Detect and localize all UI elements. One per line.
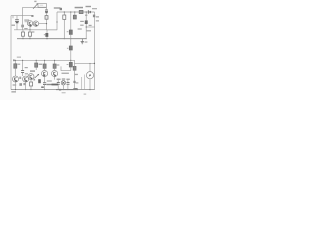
- wire bottom supply rail: [14, 59, 75, 61]
- meter M1 tick: [89, 74, 91, 76]
- capacitor C7 bottom lead: [57, 84, 59, 89]
- lamp LP1 cross: [62, 81, 65, 84]
- wire stub left of meter 2: [84, 75, 86, 90]
- battery B1 long plate: [87, 10, 89, 14]
- label above long text: [47, 80, 52, 81]
- transistor T3 internals: [14, 77, 16, 81]
- node dot x70 rail: [70, 11, 71, 12]
- wire C4 to right rail: [86, 26, 94, 28]
- diode D1 body: [73, 15, 76, 19]
- label right of battery: [85, 15, 87, 16]
- resistor R3 lead: [29, 30, 31, 32]
- node dot meter drop: [89, 63, 90, 64]
- transistor T6 emitter blob: [43, 75, 45, 77]
- node dot R11: [36, 60, 37, 61]
- capacitor C5 top lead: [22, 60, 24, 70]
- wire left vertical rail: [10, 16, 12, 90]
- label between T3 T4: [19, 77, 21, 79]
- wire top-right rail: [57, 11, 95, 13]
- node dot mid rail at R3: [29, 38, 30, 39]
- wire R11 down: [35, 67, 37, 70]
- capacitor C5 plates: [21, 71, 24, 73]
- dark blob on 0V rail at R14: [73, 88, 77, 90]
- label C1 second line: [25, 21, 28, 22]
- potentiometer R1 arrowhead: [36, 3, 38, 5]
- resistor R12 box: [43, 64, 46, 68]
- wire bottom 0V rail: [11, 89, 95, 91]
- node dot T1 emitter on rail: [29, 29, 30, 30]
- wire meter drop: [89, 63, 91, 71]
- node dot R12: [44, 60, 45, 61]
- label T1 base tick: [31, 15, 33, 17]
- capacitor C1 bottom lead: [22, 27, 24, 30]
- label long bottom text right: [52, 84, 59, 86]
- wire emitter feedback: [61, 66, 71, 70]
- resistor R14 body: [73, 66, 76, 70]
- resistor R9 lead: [14, 60, 16, 64]
- resistor R8 tick: [67, 64, 69, 66]
- node dot x70 bottom rail: [70, 60, 71, 61]
- label S1 dark part: [60, 8, 62, 10]
- capacitor C6 polarity: [41, 86, 44, 88]
- potentiometer R1 value mark: [40, 5, 44, 6]
- transistor T5 internals: [30, 75, 32, 79]
- capacitor C6 plates: [43, 83, 46, 85]
- label under rail right: [84, 94, 87, 95]
- wire meter to 0V: [89, 79, 91, 90]
- capacitor C1 top lead: [22, 16, 24, 25]
- resistor R5 lead top: [63, 12, 65, 15]
- label battery: [75, 7, 83, 9]
- transistor T3 emitter blob: [15, 80, 17, 82]
- node blob on 0V rail: [59, 89, 61, 91]
- transistor T4 circle: [23, 76, 29, 82]
- capacitor C3 body: [45, 33, 48, 37]
- microphone MIC1 element plates: [15, 20, 19, 22]
- wire mic top lead: [11, 15, 32, 17]
- arrow into T6: [35, 74, 39, 78]
- wire x70 bottom: [70, 67, 72, 71]
- battery B1 short plate: [89, 11, 91, 13]
- label above ground rail right: [78, 28, 82, 29]
- transistor T1 circle: [27, 21, 32, 26]
- mic body left stub: [12, 16, 14, 19]
- capacitor C3 polarity tick: [44, 34, 45, 36]
- label long bottom text left: [46, 84, 51, 85]
- node dot R9: [15, 60, 16, 61]
- transistor T1 emitter blob: [30, 25, 32, 27]
- label MIC text: [12, 25, 15, 26]
- resistor R11 box: [35, 63, 38, 67]
- label above C7 row: [57, 79, 61, 80]
- capacitor C3 top lead: [46, 30, 48, 33]
- label near right rail: [89, 25, 92, 26]
- wire T7 down: [54, 77, 56, 80]
- label R9: [17, 64, 20, 65]
- label T5: [30, 70, 35, 71]
- label right of rail lower: [96, 20, 99, 21]
- transistor T5 circle: [28, 74, 34, 80]
- wire collector node vertical: [46, 19, 48, 30]
- label above T4: [25, 73, 28, 74]
- node dot T2 collector: [46, 23, 47, 24]
- transistor T7 circle: [52, 70, 58, 76]
- resistor R6 box: [69, 30, 72, 34]
- meter M1 circle: [86, 72, 93, 79]
- transistor T1 internals: [29, 22, 31, 25]
- arrowhead T6: [37, 74, 39, 76]
- label under 0V rail mid: [62, 92, 66, 93]
- transistor T2 emitter blob: [36, 25, 38, 26]
- transistor T5 emitter blob: [31, 78, 33, 80]
- lamp LP1 circle: [61, 81, 65, 85]
- resistor R2 box: [22, 32, 25, 36]
- node dot R5: [64, 11, 65, 12]
- meter M1 hub: [89, 74, 91, 76]
- transistor T2 circle: [33, 21, 38, 26]
- node dot mid rail at R2: [22, 38, 23, 39]
- capacitor C2 series top: [46, 8, 48, 10]
- transistor T2 internals: [35, 22, 37, 25]
- node dot meter feed at right rail: [94, 63, 95, 64]
- capacitor C4 top lead: [85, 12, 87, 20]
- node dot C5: [22, 60, 23, 61]
- capacitor C1 plates: [21, 25, 24, 27]
- label plus terminal on right rail: [93, 15, 95, 18]
- node dot D1: [74, 11, 75, 12]
- wire R14 to 0V: [74, 63, 76, 66]
- node dot R10 0V: [30, 89, 31, 90]
- potentiometer R1 box: [38, 4, 47, 8]
- resistor R4 box: [45, 16, 48, 20]
- capacitor C2 plates: [45, 10, 48, 12]
- wire R14 lower: [74, 70, 76, 89]
- capacitor C8 plates: [67, 82, 70, 84]
- resistor R3 box: [29, 32, 32, 36]
- terminal tick left end of supply rail: [13, 59, 15, 61]
- blob on R14 wire: [73, 81, 75, 83]
- label right of R14: [75, 74, 78, 75]
- wire T4 to 0V: [25, 82, 27, 90]
- resistor R2 lead: [22, 30, 24, 32]
- label C1: [24, 19, 29, 20]
- resistor R2 bottom lead: [22, 36, 24, 39]
- label above mid rail: [24, 28, 27, 29]
- wire x70 lower: [70, 50, 72, 62]
- battery B1 cell: [79, 10, 83, 13]
- label C4 value: [80, 21, 84, 22]
- wire T1 emitter to mid rail: [29, 26, 31, 30]
- label under 0V rail left: [11, 91, 16, 92]
- wire ground rail mid: [17, 38, 86, 40]
- wire output loop: [47, 12, 58, 30]
- wire mid-left rail: [14, 29, 57, 31]
- node dot C6 0V: [44, 89, 45, 90]
- label above LP1: [62, 78, 65, 79]
- resistor R7 tick: [67, 47, 69, 49]
- wire mic bottom lead: [16, 23, 18, 30]
- potentiometer R1 wiper arrow: [33, 4, 38, 9]
- capacitor C8 top lead: [67, 79, 69, 82]
- wire C6 to 0V: [44, 85, 46, 90]
- thick 0V rail segment: [56, 89, 78, 91]
- label 9V: [86, 6, 92, 7]
- label C4 name: [80, 25, 83, 26]
- microphone MIC1 coupling lead: [16, 16, 18, 20]
- resistor R8 box: [69, 62, 72, 67]
- capacitor C7 plates: [57, 82, 60, 84]
- wire C5 to T4: [22, 73, 24, 76]
- wire T2 collector to node: [39, 23, 47, 25]
- resistor R6 tick: [67, 31, 69, 33]
- resistor R13 lead: [54, 60, 56, 64]
- transistor T3 circle: [13, 76, 19, 82]
- resistor R7 box: [69, 46, 72, 50]
- capacitor C2 body blob: [45, 12, 47, 13]
- capacitor C4 body: [85, 20, 88, 24]
- capacitor C3 bottom lead: [46, 37, 48, 39]
- label under T3: [13, 84, 17, 85]
- node dot LP1 0V: [63, 89, 64, 90]
- microphone MIC1 body blob: [16, 22, 19, 23]
- wire meter feed: [75, 60, 95, 63]
- wire stub left of meter: [81, 77, 83, 90]
- resistor R10 box: [30, 82, 33, 86]
- node dot meter 0V: [89, 89, 90, 90]
- node dot R13: [54, 60, 55, 61]
- wire R12 to T6: [44, 68, 46, 70]
- node dot mid rail at R6: [70, 38, 71, 39]
- capacitor C7 top lead: [57, 78, 59, 82]
- wire T6 down: [44, 77, 46, 83]
- transistor T4 internals: [25, 77, 27, 81]
- label S1: [54, 7, 61, 9]
- resistor R12 lead: [44, 60, 46, 64]
- node dot mid rail at C3: [46, 38, 47, 39]
- label 9V right of rail: [96, 16, 99, 17]
- blob near T5 emitter: [33, 79, 35, 81]
- wire x70 middle: [70, 34, 72, 46]
- wire T5 to R10: [30, 80, 32, 82]
- transistor T7 emitter blob: [54, 75, 56, 77]
- label under T4: [23, 83, 25, 85]
- transistor T7 internals: [54, 72, 56, 76]
- ground symbol bars: [81, 42, 84, 44]
- resistor R13 box: [53, 64, 56, 68]
- node dot C4 bottom: [86, 26, 87, 27]
- label x88 y30: [87, 30, 91, 31]
- resistor R9 box: [14, 64, 17, 68]
- capacitor C4 bottom lead: [85, 24, 87, 39]
- capacitor C8 bottom lead: [67, 84, 69, 89]
- node dot mid rail at C4: [86, 38, 87, 39]
- ground symbol stem: [81, 39, 83, 42]
- T6 junction blob: [38, 79, 41, 83]
- transistor T6 internals: [44, 72, 46, 76]
- resistor R5 box: [63, 15, 66, 19]
- wire right vertical rail: [94, 12, 96, 90]
- transistor T6 circle: [42, 70, 48, 76]
- resistor R3 bottom lead: [29, 36, 31, 39]
- label between R11 R12: [39, 64, 43, 65]
- resistor R5 bottom lead: [63, 19, 65, 38]
- node dot on x57: [56, 21, 57, 22]
- label T4: [19, 83, 22, 86]
- label R13: [57, 64, 60, 65]
- wire LP1 down: [62, 85, 64, 90]
- node dot C4 top: [86, 11, 87, 12]
- label C5: [25, 67, 28, 68]
- wire R9 to T3: [14, 68, 16, 76]
- wire T3 to 0V: [15, 82, 17, 90]
- wire R10 to 0V: [30, 86, 32, 90]
- resistor R4 leads: [46, 13, 48, 15]
- node dot C8 0V: [67, 89, 68, 90]
- label above supply rail: [17, 57, 21, 58]
- label on-off: [92, 8, 97, 9]
- node dot mid rail at R5: [64, 38, 65, 39]
- label next to ground: [85, 41, 88, 42]
- label pot value: [34, 1, 36, 2]
- node dot T4 0V: [25, 89, 26, 90]
- label under feedback: [62, 73, 69, 74]
- label R3 value: [32, 31, 35, 32]
- diode D1 lead: [74, 12, 76, 15]
- lamp LP1 center blob: [63, 82, 65, 84]
- wire top-left rail: [23, 8, 47, 16]
- node dot T3 0V: [15, 89, 16, 90]
- transistor T4 emitter blob: [25, 80, 27, 82]
- label right of C8: [75, 82, 78, 83]
- resistor R11 lead: [35, 60, 37, 63]
- wire R13 to T7: [54, 68, 56, 70]
- long chain lead x70 top: [70, 12, 72, 30]
- label above C8: [66, 79, 69, 80]
